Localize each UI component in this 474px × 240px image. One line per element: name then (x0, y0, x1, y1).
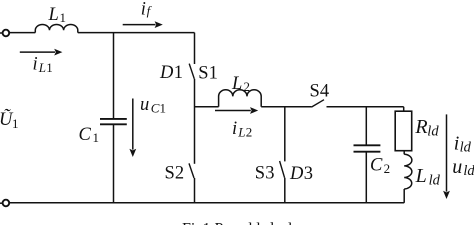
svg-text:3: 3 (265, 164, 274, 184)
terminal bottom-left (0, 200, 9, 207)
wire: L2 to S4 (261, 106, 311, 108)
label i_f (141, 0, 153, 20)
wire C2 bottom (365, 152, 367, 203)
svg-text:C: C (370, 155, 383, 175)
wire C1 bottom (113, 124, 115, 203)
label i_L2 (232, 119, 252, 140)
wire C2 top (365, 107, 367, 145)
svg-text:1: 1 (209, 64, 218, 84)
label L1 (48, 5, 67, 25)
svg-text:D: D (159, 63, 174, 83)
wire: S4 to top-right corner (327, 106, 404, 108)
svg-text:L: L (237, 125, 245, 140)
svg-text:1: 1 (203, 220, 211, 225)
svg-text:i: i (141, 0, 146, 20)
node junction C1 top (113, 33, 115, 119)
label L2 (231, 74, 250, 94)
label S4 (310, 82, 330, 102)
wire S2 rail lower (194, 178, 196, 203)
terminal top-left (0, 30, 9, 37)
svg-text:u: u (140, 95, 149, 115)
capacitor C2 (354, 145, 381, 151)
inductor L2 (219, 90, 262, 107)
svg-text:i: i (454, 133, 460, 155)
wire into R_ld (403, 107, 405, 111)
svg-text:ld: ld (427, 123, 439, 139)
svg-text:1: 1 (12, 116, 19, 131)
svg-text:D: D (289, 164, 304, 184)
wire R_ld to L_ld (403, 151, 405, 155)
svg-text:C: C (151, 101, 160, 116)
wire top: terminal to L1 (9, 32, 35, 34)
wire S3 rail upper (284, 107, 286, 162)
label S1 (198, 64, 218, 84)
svg-text:L: L (231, 74, 242, 94)
label u_C1 (140, 95, 166, 116)
wire: junction to L2 (195, 106, 219, 108)
svg-text:1: 1 (93, 130, 100, 145)
label S3 (255, 164, 275, 184)
label S2 (165, 163, 185, 183)
svg-text:ld: ld (429, 172, 441, 188)
svg-text:1: 1 (46, 60, 53, 75)
svg-text:3: 3 (304, 164, 313, 184)
svg-text:i: i (232, 119, 237, 139)
svg-text:L: L (415, 165, 427, 187)
wire L_ld to bottom (403, 189, 405, 203)
label D1 (159, 63, 183, 83)
arrow i_f (123, 21, 163, 28)
svg-text:1: 1 (174, 63, 183, 83)
svg-text:1: 1 (160, 101, 167, 116)
label u_ld (452, 156, 474, 179)
svg-text:l: l (288, 220, 293, 225)
svg-text:f: f (147, 3, 153, 18)
svg-text:L: L (48, 5, 59, 25)
switch S3 blade (280, 161, 285, 178)
switch S2 blade (189, 163, 194, 178)
svg-text:2: 2 (246, 125, 253, 140)
wire S3 rail lower (284, 178, 286, 203)
label C2 (370, 155, 390, 176)
label R_ld (414, 116, 439, 139)
svg-text:C: C (79, 125, 92, 145)
svg-text:ld: ld (460, 140, 472, 156)
arrow i_L2 (215, 107, 258, 114)
label L_ld (415, 165, 441, 188)
svg-text:S: S (198, 64, 208, 84)
svg-text:u: u (452, 156, 462, 178)
arrow i_L1 (20, 49, 63, 56)
svg-text:l: l (248, 220, 253, 225)
bottom wire (9, 202, 404, 204)
svg-text:2: 2 (244, 79, 251, 94)
svg-text:Proposed: Proposed (215, 220, 275, 225)
switch S4 blade (311, 100, 324, 107)
inductor L1 (35, 24, 78, 32)
capacitor C1 (100, 119, 127, 124)
svg-text:S: S (165, 163, 175, 183)
resistor R_ld (395, 111, 412, 151)
label U1 source (0, 109, 19, 131)
svg-text:4: 4 (320, 82, 329, 102)
arrow i_ld u_ld (443, 114, 450, 199)
label C1 (79, 125, 100, 145)
label D3 (289, 164, 313, 184)
caption (clipped at bottom edge) (182, 220, 293, 237)
inductor L_ld (404, 154, 412, 189)
svg-text:ld: ld (463, 163, 474, 179)
wire top: L1 to S1 corner (78, 32, 195, 34)
svg-text:l: l (256, 220, 261, 225)
label i_ld (454, 133, 472, 156)
svg-text:S: S (310, 82, 320, 102)
svg-text:S: S (255, 164, 265, 184)
wire S1 rail upper (194, 33, 196, 64)
switch S1 blade (189, 64, 194, 79)
svg-text:2: 2 (384, 161, 391, 176)
svg-text:2: 2 (175, 163, 184, 183)
label i_L1 (33, 54, 53, 75)
svg-text:L: L (38, 60, 46, 75)
svg-text:R: R (414, 116, 427, 138)
svg-text:1: 1 (60, 10, 67, 25)
arrow u_C1 (129, 99, 136, 158)
wire S1 rail to junction (194, 79, 196, 164)
svg-text:i: i (33, 54, 38, 74)
